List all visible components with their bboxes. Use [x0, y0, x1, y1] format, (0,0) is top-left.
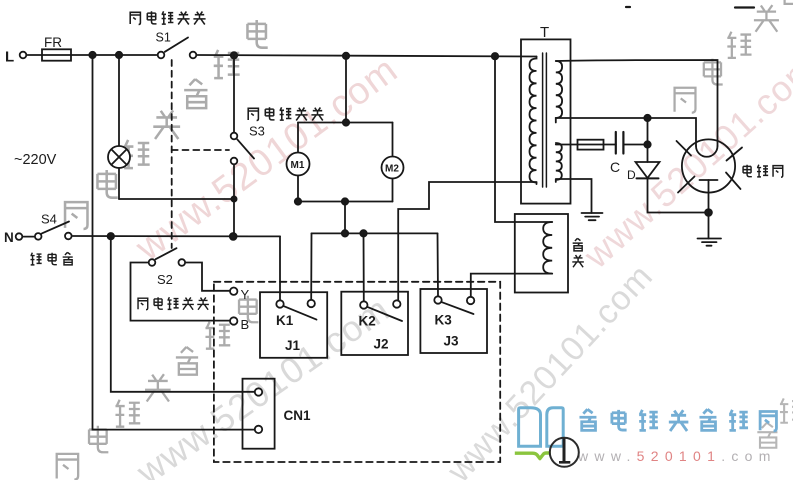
fuse FR	[42, 49, 71, 60]
label door monitor switch	[248, 107, 323, 120]
motor M2	[382, 157, 404, 179]
halogen lamp box	[515, 214, 568, 293]
junction dot N-CN1	[108, 233, 114, 239]
scan speck top right	[735, 6, 754, 8]
magnetron magnet tick NE	[727, 148, 743, 161]
svg-text:Y: Y	[241, 287, 250, 302]
oven lamp	[108, 146, 130, 168]
svg-text:~220V: ~220V	[14, 152, 57, 168]
switch S4 thermostat	[35, 222, 72, 240]
pin CN1 top	[255, 388, 262, 395]
wire L to S3	[233, 55, 235, 131]
magnetron filament bar	[700, 179, 718, 181]
wire motor top rail	[298, 122, 393, 124]
svg-text:S4: S4	[41, 212, 57, 227]
logo green wave	[515, 453, 551, 459]
svg-text:D: D	[627, 168, 636, 182]
wire N to S4	[23, 236, 33, 238]
watermark CJK far-right partial	[757, 398, 793, 447]
logo CJK text	[579, 409, 776, 431]
svg-text:S2: S2	[157, 272, 173, 287]
wire N feed to CN1 top	[111, 236, 254, 392]
svg-text:J2: J2	[374, 337, 389, 352]
watermark CJK top-right	[675, 0, 793, 113]
label halogen lamp	[572, 238, 584, 267]
svg-text:M2: M2	[385, 163, 399, 174]
wire HV top to magnetron	[556, 60, 718, 146]
transformer T box	[521, 39, 571, 203]
junction dot (S3 branch)	[231, 52, 237, 58]
wire L to fuse	[27, 54, 42, 56]
linkage dashed S1-S2	[171, 60, 173, 248]
node L terminal	[20, 52, 27, 59]
wire M2 down	[392, 179, 394, 202]
junction dot (motor branch)	[343, 53, 349, 59]
transformer HV secondary coil	[556, 61, 562, 122]
control board dashed box	[214, 282, 500, 462]
label door interlock switch (top)	[130, 11, 205, 24]
svg-text:www.520101.com: www.520101.com	[577, 448, 777, 464]
svg-text:T: T	[540, 24, 549, 41]
junction dot motor top	[343, 119, 349, 125]
label door interlock switch (S2)	[138, 297, 209, 310]
capacitor C	[616, 132, 624, 154]
wire left feed to CN1 bottom	[93, 55, 255, 430]
wire rail to K2 left	[363, 233, 365, 300]
svg-text:J1: J1	[285, 338, 301, 353]
node N terminal	[16, 233, 23, 240]
wire N rail	[73, 235, 280, 237]
wire magnetron to ground	[708, 180, 710, 239]
wire motor bottom rail	[298, 201, 393, 203]
wire filament to fuse	[556, 144, 578, 146]
watermark CJK top-left	[65, 20, 268, 229]
wire diode to ground rail	[648, 178, 709, 212]
wire halogen to K3 right	[471, 274, 552, 297]
diode D	[636, 162, 660, 178]
node Y	[230, 288, 237, 295]
junction dot lamp tee	[231, 196, 236, 201]
wire filament bottom to ground	[556, 179, 592, 213]
svg-text:FR: FR	[44, 35, 62, 50]
fuse HV	[578, 140, 604, 150]
connector CN1 box	[243, 379, 275, 449]
junction dot (oven lamp branch)	[116, 52, 122, 58]
scan speck small	[626, 6, 630, 8]
wire capacitor to node	[623, 144, 647, 146]
svg-text:K1: K1	[276, 313, 294, 328]
linkage dashed to S3	[172, 149, 229, 151]
wire halogen feed	[495, 56, 552, 222]
node B	[230, 317, 237, 324]
wire rail to K3 left	[437, 233, 440, 295]
svg-text:L: L	[5, 49, 14, 66]
wire N to K1 left	[279, 236, 281, 299]
motor M1	[287, 153, 310, 176]
junction dot (lamp-CN1 branch)	[89, 52, 95, 58]
svg-text:N: N	[4, 230, 14, 245]
relay contact K3	[434, 296, 474, 314]
halogen lamp coil	[543, 222, 552, 274]
watermark CJK bottom-left	[57, 296, 259, 480]
svg-text:K2: K2	[359, 314, 376, 329]
wire S2 left to B	[131, 263, 230, 321]
junction dot C node top	[644, 115, 650, 121]
wire relay rail	[312, 232, 438, 234]
junction dot (halogen branch)	[492, 53, 498, 59]
magnetron V1	[682, 139, 735, 192]
pin CN1 bottom	[255, 426, 262, 433]
wire S2 right to Y	[186, 263, 229, 291]
magnetron magnet tick SE	[726, 173, 741, 190]
logo book icon	[519, 408, 564, 447]
junction dot N-S3	[230, 233, 237, 240]
circled bar symbol	[550, 438, 579, 467]
transformer core	[543, 53, 547, 187]
junction dot relay rail left	[342, 230, 348, 236]
magnetron magnet tick NW	[677, 141, 692, 156]
transformer filament coil	[556, 143, 562, 182]
wire M1 down	[297, 176, 299, 202]
wire HV bottom to magnetron	[556, 118, 696, 146]
ground magnetron	[698, 239, 722, 246]
wire S3 to N rail	[233, 165, 235, 236]
ground transformer	[582, 213, 603, 220]
wire rail to K1 right	[310, 233, 312, 299]
junction dot motor bottom	[342, 198, 348, 204]
relay J2 box	[341, 292, 408, 355]
svg-text:J3: J3	[444, 334, 460, 349]
wire motors to relay rail	[344, 202, 346, 234]
switch S1 door interlock	[158, 38, 197, 59]
switch S3 door monitor	[231, 133, 254, 165]
relay contact K2	[360, 300, 402, 321]
svg-text:K3: K3	[435, 313, 453, 328]
relay J3 box	[420, 289, 487, 353]
wire S1 to transformer primary top	[197, 55, 536, 57]
svg-text:S3: S3	[249, 124, 265, 139]
svg-text:S1: S1	[156, 31, 171, 45]
svg-text:C: C	[610, 159, 620, 175]
svg-text:B: B	[241, 317, 250, 332]
junction dot relay rail K2	[360, 230, 366, 236]
svg-text:M1: M1	[291, 160, 305, 171]
svg-text:CN1: CN1	[284, 408, 311, 423]
wire fuse to S1	[71, 54, 157, 56]
label thermostat	[30, 252, 72, 265]
wire to oven lamp	[118, 55, 120, 146]
wire fuse to capacitor	[604, 144, 616, 146]
junction dot C node	[644, 141, 650, 147]
junction dot magnetron cathode	[705, 209, 712, 216]
switch S2 door interlock	[149, 248, 185, 266]
wire lamp to S3 net	[119, 198, 234, 200]
junction dot M1 bottom	[295, 198, 301, 204]
relay contact K1	[276, 300, 316, 320]
wire to M2	[392, 123, 394, 157]
label magnetron	[743, 165, 783, 178]
transformer primary coil	[530, 57, 537, 185]
magnetron magnet tick SW	[678, 177, 695, 193]
wire transformer primary bottom staircase	[398, 182, 536, 300]
wire node vertical	[647, 118, 649, 162]
wire L to motors	[345, 56, 347, 123]
wire lamp down	[118, 168, 120, 199]
wire to M1	[297, 123, 299, 153]
relay J1 box	[260, 292, 327, 358]
